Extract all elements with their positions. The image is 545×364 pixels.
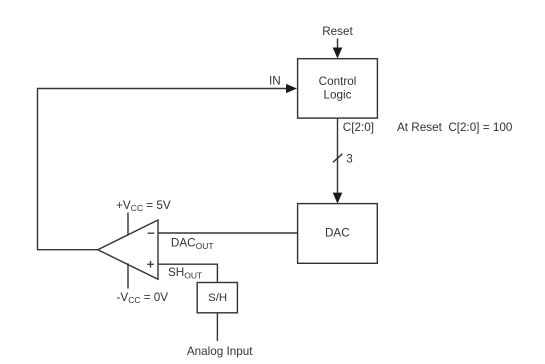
- svg-text:Analog Input: Analog Input: [187, 345, 253, 358]
- svg-text:IN: IN: [269, 74, 281, 87]
- svg-text:Logic: Logic: [324, 88, 352, 101]
- svg-text:-VCC = 0V: -VCC = 0V: [117, 291, 169, 305]
- svg-text:+VCC = 5V: +VCC = 5V: [116, 199, 171, 213]
- svg-text:Reset: Reset: [322, 25, 353, 38]
- svg-text:At Reset C[2:0] = 100: At Reset C[2:0] = 100: [397, 121, 513, 134]
- svg-text:3: 3: [346, 153, 353, 166]
- svg-text:Control: Control: [319, 75, 357, 88]
- svg-text:S/H: S/H: [208, 292, 227, 304]
- svg-text:DAC: DAC: [325, 227, 350, 240]
- svg-text:C[2:0]: C[2:0]: [343, 121, 374, 134]
